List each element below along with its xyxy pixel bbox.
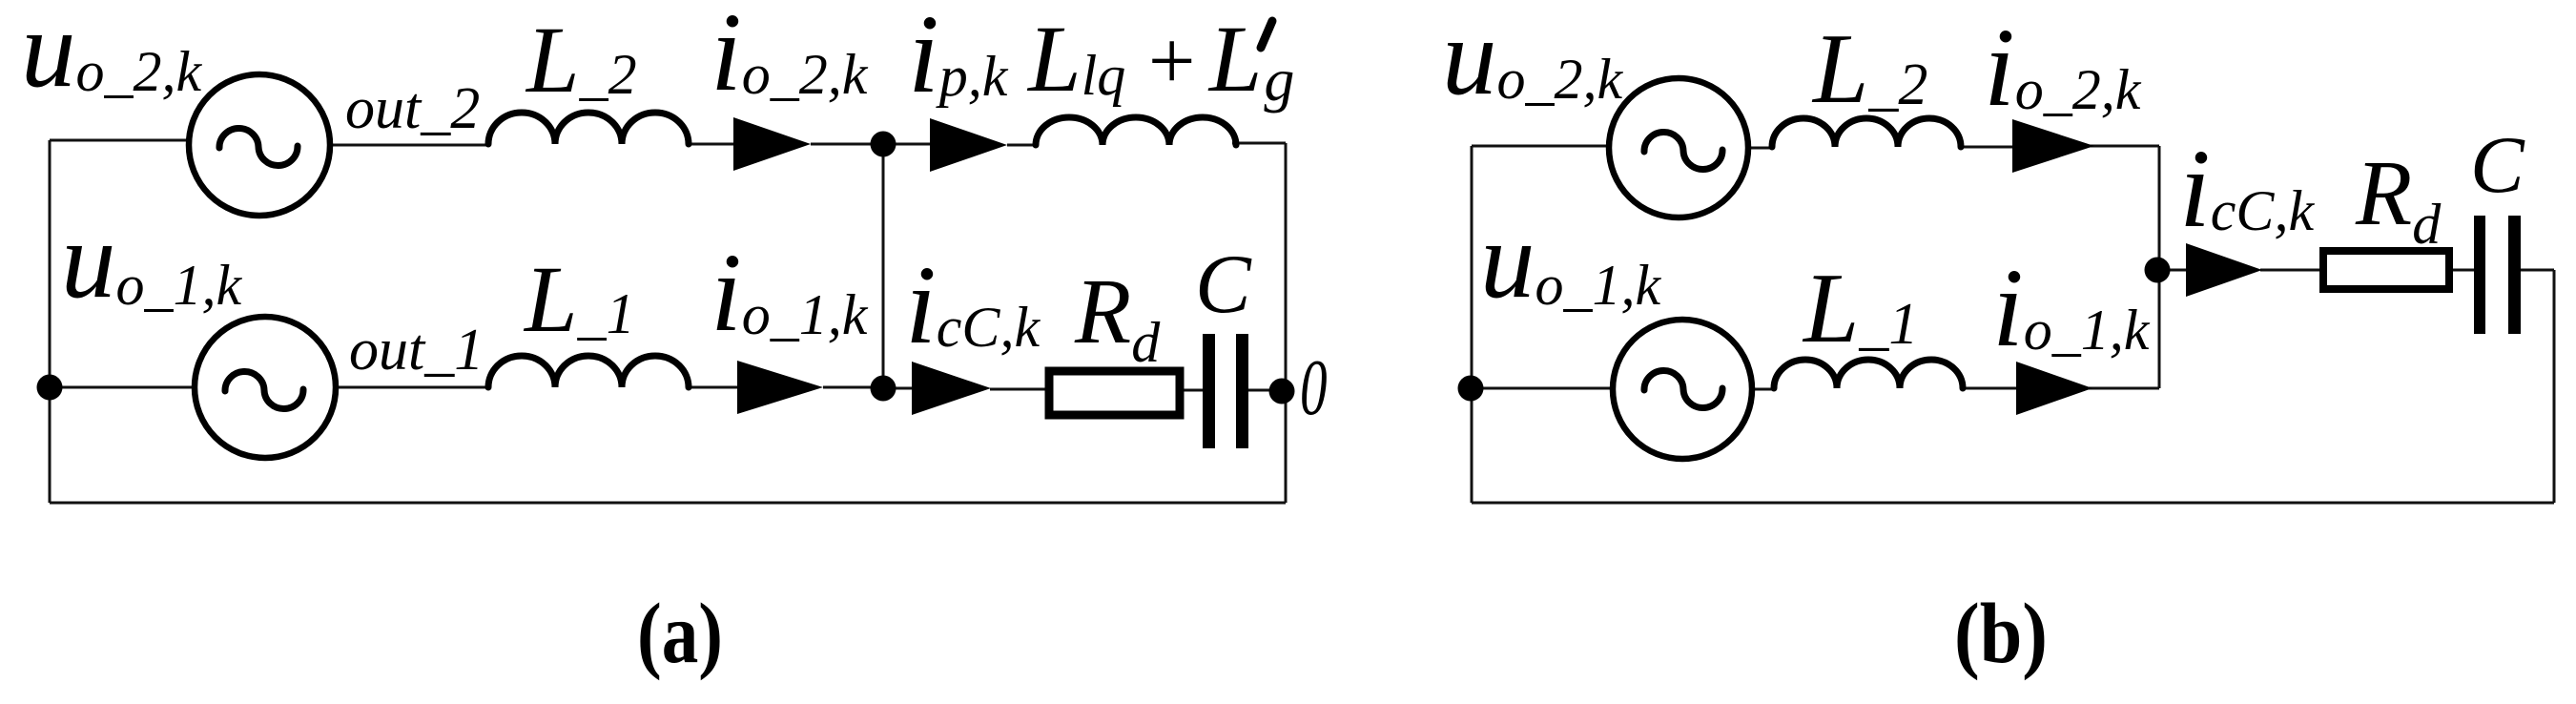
AC source circle (b) u_o_2,k [1609, 78, 1748, 217]
junction node (a) bottom left [37, 375, 63, 401]
sine symbol inside (b) top source [1644, 133, 1722, 170]
wire: (a) top branch, arrow i_p,k to inductor Llq+L'g [1007, 144, 1038, 147]
capacitor C (b) left plate [2474, 216, 2485, 334]
wire: (a) bottom branch, resistor to capacitor C [1183, 389, 1204, 392]
wire: (b) bottom branch, arrow to right corner [2089, 387, 2159, 390]
wire: (a) bottom branch, arrow to resistor R_d [990, 388, 1047, 391]
inductor L_1 (b) [1774, 360, 1963, 388]
wire: (a) bottom branch, left node to source u_o_1,k [50, 386, 196, 389]
wire: circuit (a) bottom horizontal [50, 502, 1286, 505]
AC source circle (b) u_o_1,k [1613, 320, 1752, 459]
current arrow i_o_2,k (b) [2012, 119, 2094, 173]
current arrow i_cC,k (b) [2186, 243, 2262, 297]
wire: circuit (a) right vertical [1285, 143, 1288, 503]
sine symbol inside (a) top source [219, 128, 298, 165]
AC source circle (a) u_o_1,k [195, 317, 336, 458]
svg-text:Llq+Lg: Llq+Lg [1026, 6, 1294, 114]
junction node (b) middle [2145, 258, 2171, 283]
wire: (b) top branch, left corner to source u_o_2,k [1472, 145, 1612, 148]
inductor L_1 (a) [488, 356, 689, 387]
wire: (b) bottom branch, left node to source u_o_1,k [1472, 387, 1614, 390]
wire: (b) middle branch, resistor to capacitor C [2451, 269, 2475, 272]
wire: (a) top branch, junction to arrow i_p,k [883, 143, 933, 146]
svg-text:C: C [1195, 238, 1252, 331]
wire: circuit (b) left vertical [1471, 146, 1473, 503]
sine symbol inside (b) bottom source [1644, 371, 1722, 408]
wire: (b) vertical from top corner through junction to bottom corner [2158, 146, 2161, 388]
capacitor C (a) right plate [1236, 334, 1248, 448]
wire: (a) bottom branch, junction to arrow i_cC,k [883, 387, 914, 390]
wire: (b) top branch, source to inductor L_2 [1746, 147, 1774, 150]
capacitor C (a) left plate [1203, 334, 1215, 448]
capacitor C (b) right plate [2508, 216, 2521, 334]
svg-text:(b): (b) [1954, 587, 2048, 681]
svg-text:(a): (a) [637, 587, 723, 681]
current arrow i_p,k (a) [930, 118, 1007, 172]
wire: (a) top branch, L_2 to arrow i_o_2,k [689, 143, 736, 146]
wire: (b) top branch, L_2 to arrow i_o_2,k [1961, 146, 2014, 149]
prime mark on L'g (a) [1261, 21, 1272, 48]
wire: (b) middle branch, capacitor to right corner [2520, 269, 2554, 272]
wire: (b) middle branch, junction to arrow i_cC,k [2159, 269, 2188, 272]
svg-text:0: 0 [1300, 342, 1328, 432]
inductor Llq+L'g (a) [1036, 117, 1236, 145]
wire: (b) middle branch, arrow to resistor R_d [2260, 269, 2321, 272]
current arrow i_o_1,k (b) [2016, 362, 2092, 415]
svg-text:out_1: out_1 [349, 318, 484, 383]
node 0 junction (a) right [1269, 379, 1295, 404]
wire: (a) top branch, inductor to top-right corner [1232, 142, 1286, 145]
wire: circuit (b) right vertical [2553, 270, 2556, 503]
wire: (a) top branch, arrow to junction node [811, 143, 883, 146]
inductor L_2 (b) [1772, 118, 1961, 147]
current arrow i_o_2,k (a) [733, 117, 811, 171]
svg-text:out_2: out_2 [345, 76, 480, 141]
resistor R_d (b) [2323, 251, 2449, 289]
wire: (a) bottom branch, L_1 to arrow i_o_1,k [689, 386, 740, 389]
wire: (b) top branch, arrow to right corner [2089, 145, 2159, 148]
inductor L_2 (a) [488, 113, 689, 144]
wire: (a) bottom branch, arrow to junction node [823, 386, 883, 389]
wire: (a) bottom branch, capacitor to node 0 [1248, 389, 1286, 392]
sine symbol inside (a) bottom source [225, 371, 303, 408]
resistor R_d (a) [1049, 371, 1180, 415]
wire: (a) top branch, left corner to source u_o_2,k [50, 139, 191, 142]
wire: (a) bottom branch, source to inductor L_1 [336, 386, 490, 389]
wire: (a) top branch, source to inductor L_2 [330, 144, 490, 147]
wire: (b) bottom branch, L_1 to arrow i_o_1,k [1961, 387, 2018, 390]
AC source circle (a) u_o_2,k [189, 74, 330, 216]
current arrow i_cC,k (a) [912, 362, 991, 415]
junction node (a) bottom middle [871, 376, 896, 402]
wire: circuit (b) bottom horizontal [1472, 502, 2554, 505]
wire: (a) middle vertical junction wire [882, 144, 885, 388]
junction node (b) bottom left [1458, 376, 1484, 402]
wire: (b) bottom branch, source to inductor L_1 [1751, 388, 1776, 391]
wire: circuit (a) left vertical [49, 140, 52, 503]
junction node (a) top middle [871, 132, 896, 157]
current arrow i_o_1,k (a) [737, 361, 823, 414]
svg-text:C: C [2470, 120, 2525, 210]
